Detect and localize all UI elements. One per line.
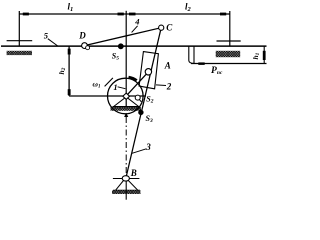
svg-text:5: 5 <box>44 30 49 40</box>
svg-text:A: A <box>164 61 171 71</box>
svg-text:4: 4 <box>134 17 139 27</box>
svg-text:B: B <box>130 168 137 178</box>
svg-text:3: 3 <box>145 142 151 152</box>
svg-text:2: 2 <box>166 81 172 91</box>
svg-text:1: 1 <box>113 82 117 92</box>
svg-text:C: C <box>166 23 173 33</box>
svg-text:D: D <box>78 31 86 41</box>
